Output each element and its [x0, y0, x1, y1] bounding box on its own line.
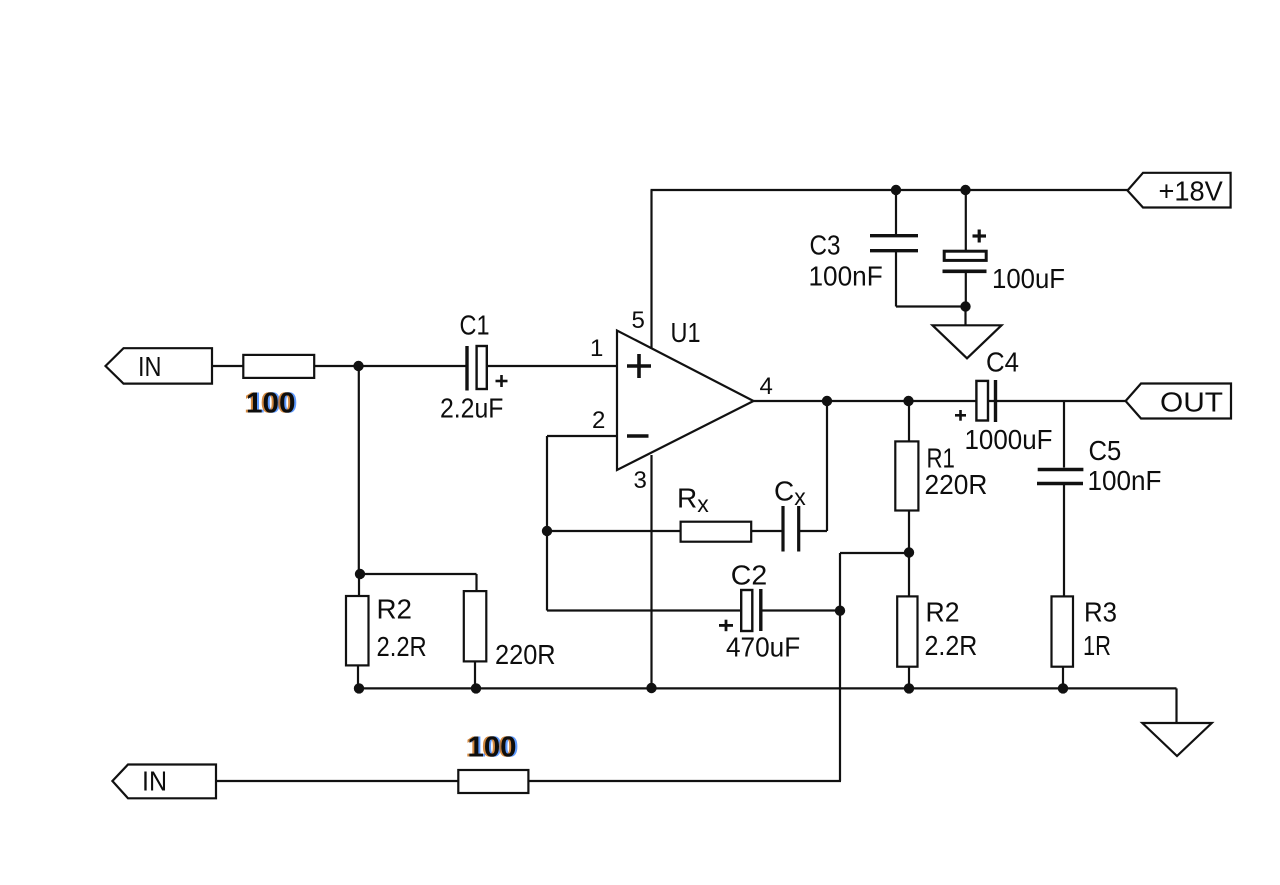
svg-text:100: 100 — [468, 732, 517, 764]
svg-text:IN: IN — [142, 766, 167, 797]
capacitor C1 — [440, 310, 508, 424]
node output-Cx junction dot — [822, 396, 832, 406]
svg-text:R2: R2 — [926, 597, 960, 628]
node C2 junction dot — [835, 606, 845, 616]
wire rail to ground symbol — [1175, 688, 1177, 723]
resistor R1 — [895, 401, 987, 596]
svg-text:5: 5 — [632, 307, 645, 334]
svg-text:2.2uF: 2.2uF — [440, 393, 503, 424]
node R3-rail junction dot — [1058, 683, 1068, 693]
wire pin 5 up to +V rail — [650, 190, 652, 349]
ground rail (bottom) — [359, 687, 1177, 689]
wire op-amp output pin 4 — [754, 400, 1126, 402]
svg-text:+18V: +18V — [1159, 176, 1224, 207]
capacitor C3 — [809, 190, 919, 307]
wire Rx to Cx — [751, 530, 782, 532]
connector IN (bottom input) — [112, 765, 216, 799]
node input-divider junction dot — [355, 569, 365, 579]
connector +18V — [1128, 173, 1231, 208]
node R1-R2 junction dot — [904, 547, 914, 557]
wire Cx to output node — [799, 401, 827, 531]
node rail-100uF junction dot — [960, 185, 970, 195]
wire C2 node to R1-R2 node — [840, 552, 909, 554]
svg-text:2: 2 — [592, 407, 605, 434]
svg-text:100uF: 100uF — [992, 263, 1065, 294]
resistor Rx — [677, 483, 751, 542]
wire C3 bottom to ground node — [896, 305, 966, 307]
node R2L-rail junction dot — [354, 683, 364, 693]
svg-text:OUT: OUT — [1160, 387, 1223, 418]
wire pin 3 down to ground rail — [650, 455, 652, 688]
resistor 100 (bottom) — [458, 770, 528, 793]
svg-text:2.2R: 2.2R — [377, 631, 427, 662]
wire R100 to C1 — [314, 365, 467, 367]
resistor 100 (top) — [243, 355, 314, 378]
node pin3-rail junction dot — [646, 683, 656, 693]
svg-text:470uF: 470uF — [726, 632, 800, 663]
wire pin2 node down to C2 — [547, 531, 741, 611]
node A junction dot — [353, 361, 363, 371]
connector OUT — [1126, 384, 1231, 419]
node R2-rail junction dot — [904, 683, 914, 693]
svg-text:Rx: Rx — [677, 483, 709, 518]
node 100uF-gnd junction dot — [960, 301, 970, 311]
svg-text:220R: 220R — [925, 469, 988, 500]
capacitor C5 — [1037, 401, 1162, 596]
svg-text:Cx: Cx — [774, 476, 806, 511]
wire C2 to node — [763, 609, 841, 611]
capacitor 100uF (electrolytic) — [943, 190, 1066, 307]
node output-R1 junction dot — [903, 396, 913, 406]
svg-text:IN: IN — [138, 351, 162, 382]
svg-text:C1: C1 — [460, 310, 490, 341]
wire node to 220R branch — [360, 574, 477, 591]
svg-text:R2: R2 — [377, 594, 413, 625]
svg-text:100nF: 100nF — [809, 261, 883, 292]
node 220R-rail junction dot — [471, 683, 481, 693]
svg-text:U1: U1 — [671, 317, 701, 348]
wire +18V power rail — [651, 189, 1128, 191]
wire C1 to op-amp pin 1 — [487, 365, 617, 367]
resistor R2 (input, 2.2R) — [346, 574, 427, 689]
wire feedback node to Rx — [547, 530, 681, 532]
svg-text:1: 1 — [590, 335, 603, 362]
svg-text:4: 4 — [760, 373, 773, 400]
svg-text:1R: 1R — [1083, 630, 1111, 661]
node feedback junction dot — [542, 526, 552, 536]
connector IN (top input) — [106, 348, 213, 383]
node rail-C3 junction dot — [891, 185, 901, 195]
wire node A down — [358, 366, 360, 574]
svg-text:C2: C2 — [731, 560, 767, 591]
svg-text:C5: C5 — [1089, 435, 1122, 466]
wire IN to R100 — [212, 365, 243, 367]
svg-text:220R: 220R — [495, 639, 556, 670]
svg-text:1000uF: 1000uF — [965, 424, 1053, 455]
resistor R3 — [1052, 596, 1118, 688]
wire C2 node vertical — [839, 553, 841, 781]
ground (power) — [933, 307, 1002, 359]
svg-text:R3: R3 — [1084, 597, 1117, 628]
capacitor C2 (electrolytic) — [719, 560, 800, 663]
ground (signal) — [1142, 723, 1212, 756]
wire pin 2 — [547, 436, 617, 531]
wire R100 bottom to C2 branch — [528, 780, 841, 782]
resistor 220R (input) — [464, 591, 556, 688]
resistor R2 (output network) — [897, 596, 977, 688]
svg-text:3: 3 — [634, 467, 647, 494]
svg-text:2.2R: 2.2R — [925, 630, 978, 661]
svg-text:100: 100 — [246, 388, 296, 420]
svg-text:C4: C4 — [986, 347, 1019, 378]
svg-text:C3: C3 — [810, 230, 841, 261]
wire IN2 to R100 bottom — [216, 780, 458, 782]
capacitor Cx — [774, 476, 806, 552]
svg-text:100nF: 100nF — [1088, 465, 1162, 496]
capacitor C4 (electrolytic) — [955, 347, 1053, 456]
op-amp U1 — [617, 317, 754, 470]
